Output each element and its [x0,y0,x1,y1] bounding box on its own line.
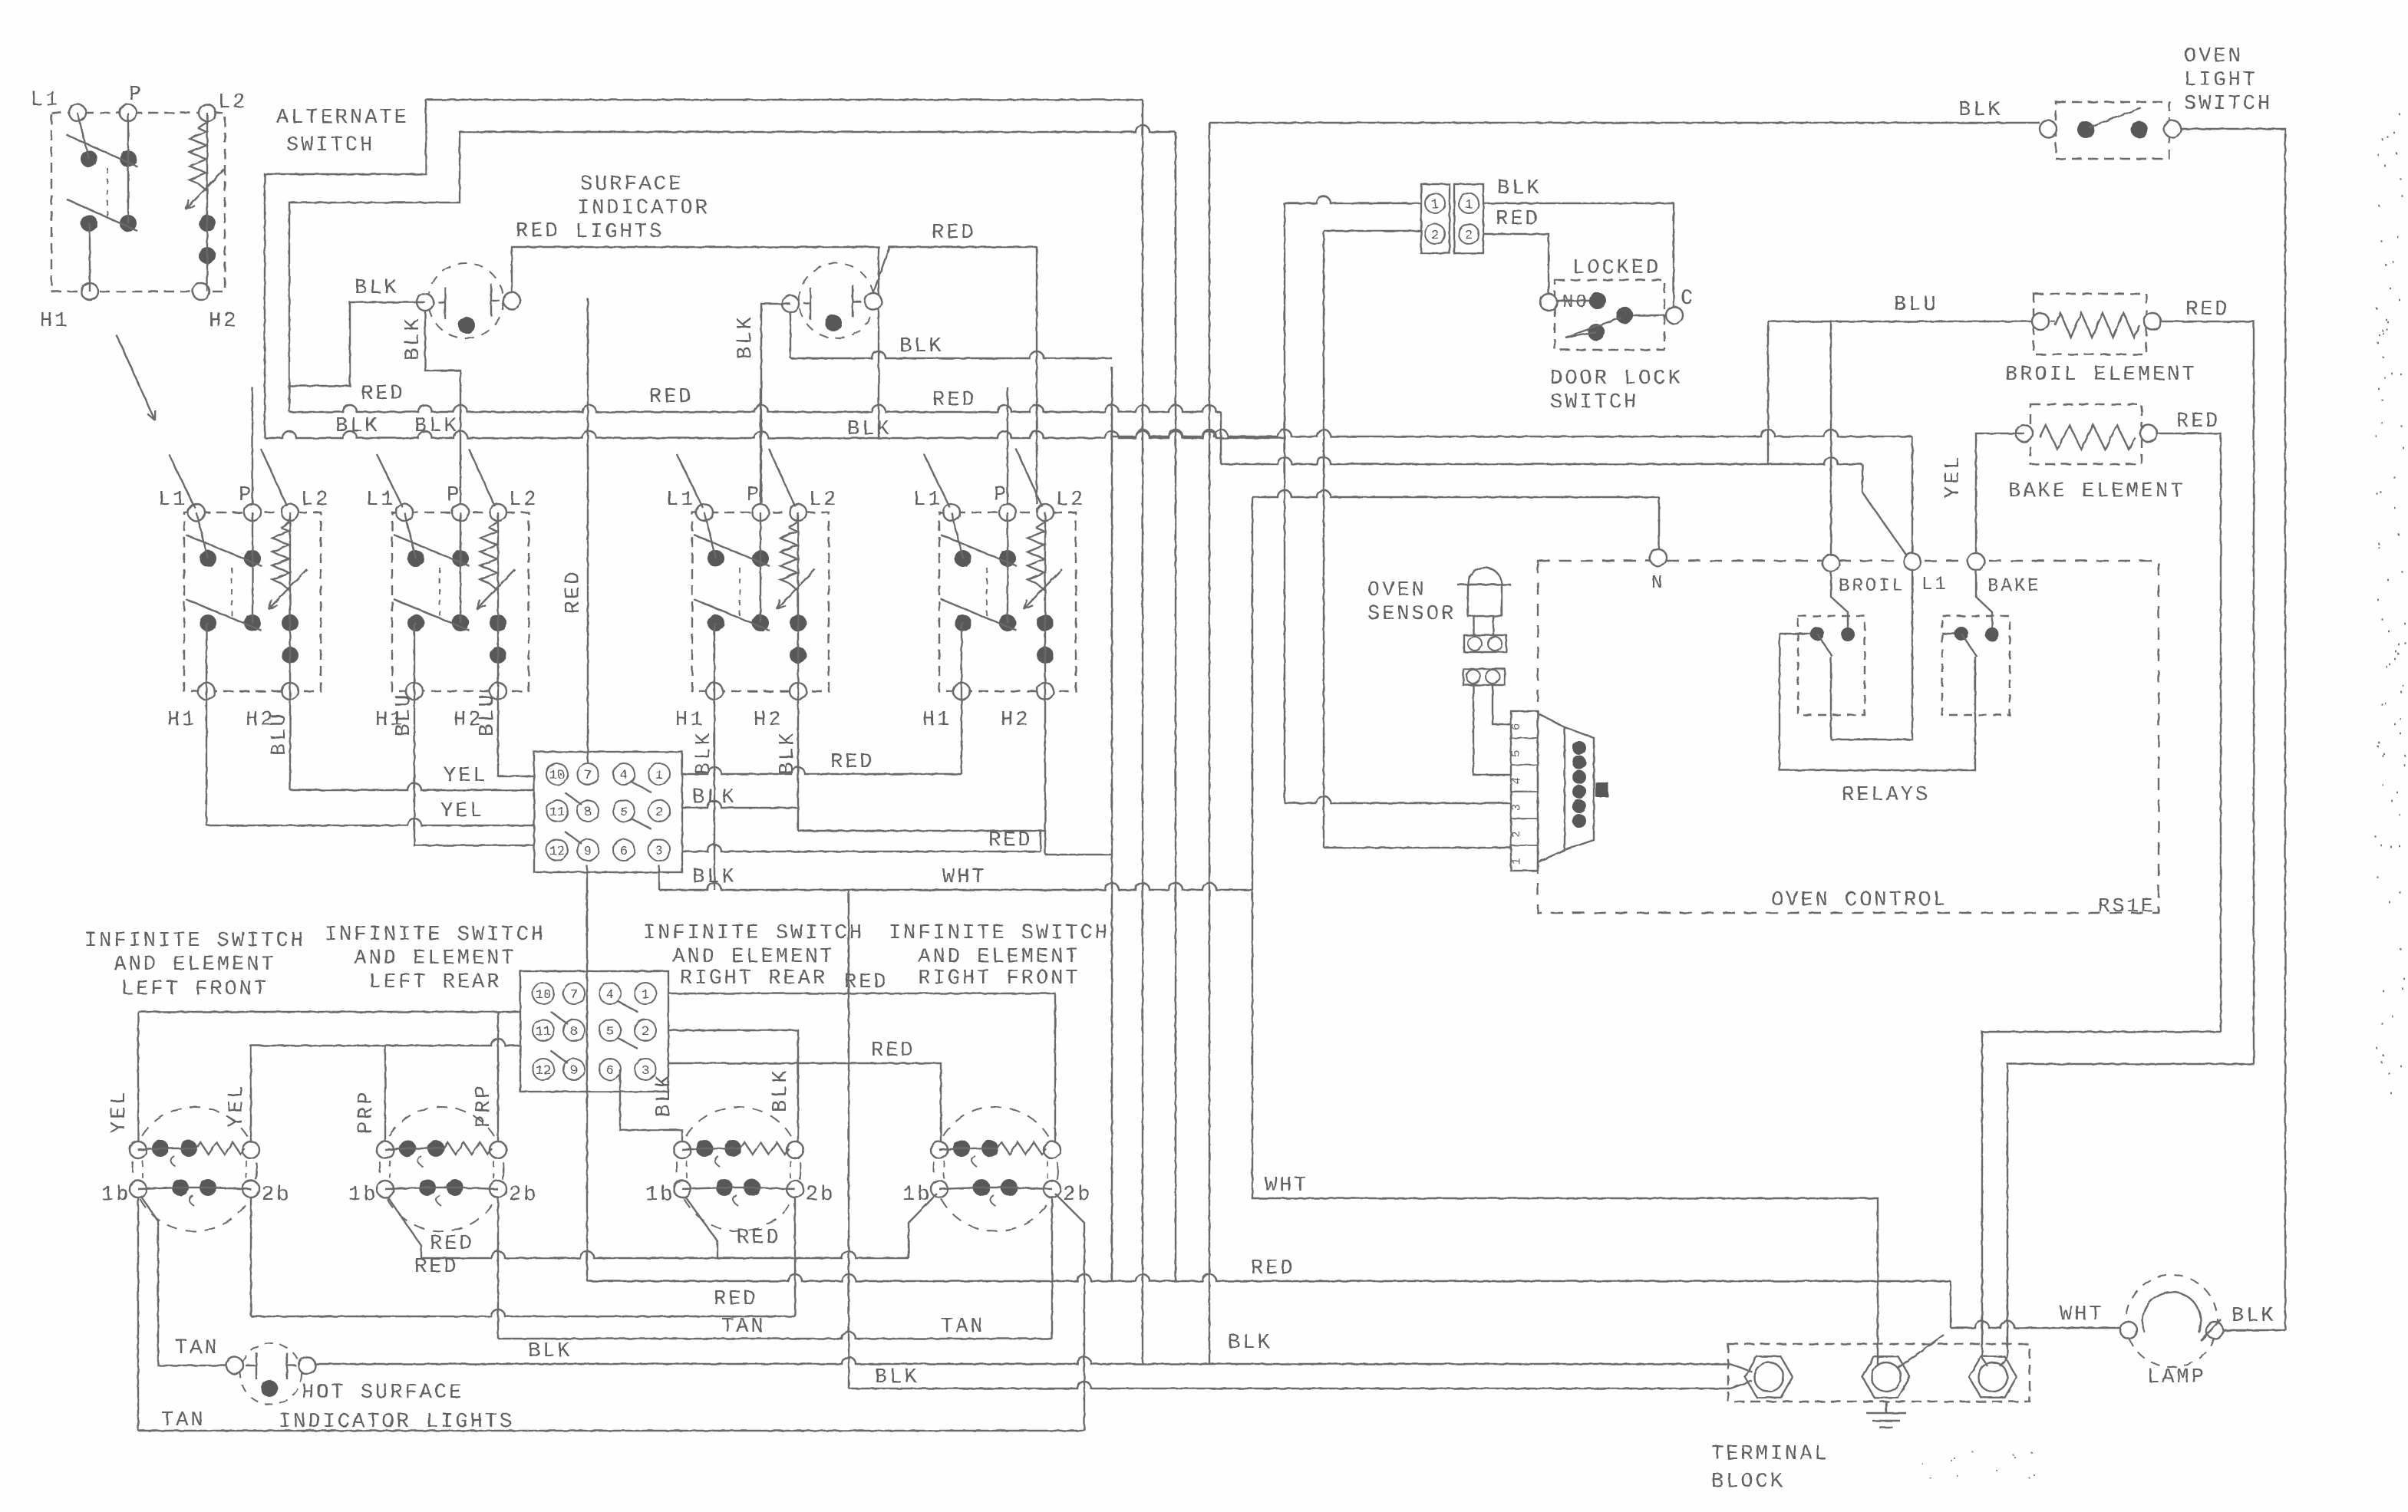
svg-text:3: 3 [642,1064,649,1079]
connector CB2 pin 3 [635,1059,656,1080]
svg-text:RIGHT FRONT: RIGHT FRONT [918,967,1080,990]
svg-text:BLU: BLU [1894,294,1938,317]
wire RED bus elements 1b [388,1197,421,1258]
svg-text:BLK: BLK [899,335,944,358]
wire S2 H2 down BLU [498,691,534,776]
door lock switch terminal NO [1540,294,1557,311]
svg-text:12: 12 [536,1064,551,1079]
svg-text:2: 2 [1431,229,1439,243]
svg-text:H1: H1 [675,709,704,732]
switch S4 contacts [955,550,971,567]
svg-text:P: P [447,484,461,507]
switch S3 terminal H2 [790,683,807,700]
oven light switch contacts [2077,121,2094,138]
wire cascade S3H2 to S4H2 [798,830,1045,832]
svg-text:3: 3 [1510,804,1523,811]
svg-text:BLOCK: BLOCK [1711,1471,1785,1494]
svg-text:BLK: BLK [528,1340,572,1363]
switch S2 contacts [407,550,424,567]
svg-text:RED: RED [830,751,875,774]
svg-text:5: 5 [1510,750,1523,757]
svg-text:BLU: BLU [269,711,292,756]
wire element2 right riser PRP [497,1012,499,1141]
svg-text:11: 11 [549,805,565,820]
wire riser x1489 BLK [1142,100,1143,1364]
bake element resistor [2040,425,2135,450]
svg-text:RED: RED [871,1039,915,1062]
svg-text:L1: L1 [666,489,695,512]
lamp terminals [2120,1322,2137,1339]
wire TAN bottom bus [138,1430,1084,1431]
infinite switch LEFT FRONT link dashes [143,1161,246,1178]
wire S4 H1 down [961,691,962,774]
switch S2 terminal P [452,504,469,521]
infinite switch RIGHT REAR element resistor [696,1140,713,1157]
wire S4 H2 down [1044,691,1046,855]
svg-text:AND ELEMENT: AND ELEMENT [672,946,834,969]
wire bake RED to riser [2157,433,2221,1032]
svg-text:6: 6 [620,845,628,859]
relay K1 feed jog [1831,572,1848,629]
relay K2 right contact [1985,628,1999,641]
switch S2 contact arm upper [394,535,470,566]
relay K2 feed jog [1976,570,1992,629]
oven control board connector [1565,727,1594,850]
connector CB1 pin 10 [546,763,568,785]
switch S3 terminal L1 [696,504,713,521]
bake element terminals [2016,425,2033,442]
oven light switch dashed box [2056,102,2169,159]
svg-text:TAN: TAN [175,1337,219,1360]
svg-text:2b: 2b [806,1184,835,1207]
hot surface light bulb dot [261,1380,278,1397]
svg-text:BLK: BLK [355,277,399,300]
svg-text:LOCKED: LOCKED [1572,257,1661,280]
svg-text:BLK: BLK [875,1366,919,1389]
wire bus into CB2 upper [138,1011,520,1013]
svg-text:8: 8 [584,805,592,820]
svg-text:P: P [129,84,143,107]
svg-text:YEL: YEL [440,800,485,823]
connector CB2 pin 12 [533,1059,554,1080]
svg-text:L2: L2 [509,489,538,512]
svg-text:ALTERNATE: ALTERNATE [276,107,409,130]
scan noise right margin [2375,114,2406,1093]
oven control terminal BROIL [1822,555,1839,572]
svg-text:BLK: BLK [692,866,737,889]
strip to connector perspective lines [1538,713,1565,727]
svg-text:RS1E: RS1E [2098,894,2155,917]
switch S1 terminal H2 [282,683,299,700]
svg-text:L2: L2 [301,489,330,512]
switch S2 wiper arrow [477,569,515,609]
svg-text:INFINITE SWITCH: INFINITE SWITCH [325,924,546,947]
connector CB2 pin 4 [599,983,621,1004]
infinite switch RIGHT FRONT element resistor [953,1140,970,1157]
wire connector pin1 BLK to door lock C [1483,203,1674,307]
svg-text:PRP: PRP [473,1083,496,1128]
switch S4 contact arm upper [941,535,1017,566]
infinite switch RIGHT FRONT dashed circle [934,1107,1058,1231]
svg-text:INFINITE SWITCH: INFINITE SWITCH [889,922,1110,945]
switch S1 terminal L2 [282,504,299,521]
terminal block hex lug 1 [1745,1356,1793,1398]
svg-text:10: 10 [536,988,551,1003]
wire CB1 pin6 down [658,865,660,890]
svg-text:YEL: YEL [444,765,488,788]
svg-text:L2: L2 [1056,489,1085,512]
svg-text:RED: RED [1251,1257,1295,1280]
infinite switch RIGHT FRONT upper terminals [931,1141,948,1158]
svg-text:BROIL: BROIL [1839,576,1905,597]
svg-text:BLU: BLU [393,692,416,736]
switch S1 resistor [281,522,290,528]
relay K1 left contact [1810,627,1824,641]
oven sensor connector 1 [1464,635,1506,652]
wire P feed S4 [1007,387,1008,504]
svg-text:BLK: BLK [734,315,757,359]
svg-text:TERMINAL: TERMINAL [1711,1443,1829,1466]
infinite switch LEFT REAR lower switch [377,1181,394,1197]
svg-text:BLK: BLK [1958,99,2003,122]
switch S1 dashed outline [184,512,321,691]
oven sensor bulb [1468,568,1502,585]
connector CB1 pin 7 [577,763,599,785]
wire broil RED horizontal to hex3 [2007,1064,2254,1358]
wire bus y265 to connector [1285,196,1421,203]
switch S2 terminal L1 [396,504,413,521]
svg-text:BLK: BLK [847,418,892,441]
switch S1 contacts [200,550,216,567]
wire CB1 pin3 RED out [682,845,1041,852]
infinite switch LEFT FRONT upper terminals [130,1141,147,1158]
wire TAN bus y1745 [497,1197,499,1339]
svg-text:5: 5 [606,1025,614,1039]
hot surface indicator light dashed circle [240,1343,302,1405]
hot surface light terminals [226,1357,243,1374]
svg-text:4: 4 [620,769,628,783]
wire N riser [1658,497,1660,549]
svg-text:P: P [747,484,761,507]
connector CB2 pin 1 [635,983,656,1004]
wire element2 left riser PRP [384,1046,386,1141]
lamp dashed circle [2126,1275,2218,1367]
connector P1-A pin 1 [1425,193,1445,213]
svg-text:H1: H1 [167,709,196,732]
svg-text:LIGHTS: LIGHTS [576,221,664,244]
wire element1 1b to TAN hot-surface [141,1197,226,1365]
wire bus lineC y648 to N [1252,490,1659,497]
switch S3 terminal H1 [706,683,723,700]
oven sensor connector 2 [1463,669,1505,685]
connector CB1 pin 9 [577,839,599,861]
switch S0-ALTERNATE contacts [81,150,97,167]
scan noise bottom right [1921,1451,2035,1478]
wire L2 feed S4 [1016,449,1042,506]
wire relay bottom loop [1780,634,1975,770]
svg-text:2: 2 [655,805,663,820]
door lock switch terminal C [1666,307,1683,324]
svg-text:RED: RED [714,1288,758,1311]
svg-text:SWITCH: SWITCH [1550,391,1638,414]
oven sensor stems [1473,616,1475,635]
lamp envelope [2142,1292,2201,1332]
wire element4 2b taper down [1055,1194,1084,1431]
wire L1 feed S2 [377,454,403,508]
svg-text:6: 6 [606,1064,614,1079]
wire S2 H1 down BLU [414,691,534,845]
svg-text:3: 3 [655,845,663,859]
wire lamp BLK right [2223,1329,2285,1331]
relay K2 (bake) dashed box [1942,616,2010,715]
svg-text:BAKE ELEMENT: BAKE ELEMENT [2008,480,2185,503]
switch S0-ALTERNATE terminal L2 [199,104,216,121]
connector CB1 pin 1 [648,763,670,785]
svg-text:L1: L1 [913,489,942,512]
svg-text:1: 1 [1431,198,1439,212]
svg-text:WHT: WHT [942,866,987,889]
switch S4 dashed outline [939,512,1076,691]
switch S4 internal wiring [952,512,963,558]
switch S0-ALTERNATE terminal L1 [69,104,86,121]
svg-text:H1: H1 [40,310,69,333]
switch S1 contact arm upper [186,535,262,566]
wire BLU to broil element [1768,321,2032,322]
switch S3 contact arm lower [694,599,770,631]
svg-text:RED: RED [932,222,976,245]
relay K1 left stub [1780,633,1811,634]
wire RED bus y537 [289,405,1221,412]
wire element1 left riser YEL [137,1012,139,1141]
svg-text:BLK: BLK [692,786,737,809]
switch S4 terminal H1 [953,683,970,700]
svg-text:L2: L2 [218,91,247,114]
svg-text:10: 10 [549,769,565,783]
broil element dashed box [2034,294,2146,354]
svg-text:YEL: YEL [108,1089,131,1134]
svg-text:RED: RED [430,1233,474,1256]
wire S1 H2 down YEL [289,691,291,790]
svg-text:LIGHT: LIGHT [2184,69,2258,92]
svg-text:BLK: BLK [2232,1305,2276,1328]
wire P feed S1 [252,387,253,504]
relay K1 arm [1817,634,1832,657]
switch S3 wiper arrow [777,569,815,609]
connector P1-B pin 1 [1459,193,1479,213]
connector CB2 pin 2 [635,1020,656,1041]
relay K2 arm [1961,634,1977,657]
svg-text:INFINITE SWITCH: INFINITE SWITCH [643,922,864,945]
svg-text:H1: H1 [922,709,952,732]
svg-text:INDICATOR: INDICATOR [577,197,710,220]
wire riser x1449 [1111,367,1113,1281]
wire RED bus y1716 [251,1309,795,1316]
wire riser x1576 [1209,123,1210,1364]
switch S0-ALTERNATE resistor [198,122,207,128]
terminal block hex lug 3 [1969,1356,2017,1398]
wire bus into strip pin3 [1285,802,1317,804]
broil element resistor [2050,321,2055,322]
switch S2 resistor [489,522,498,528]
switch S3 internal wiring [704,512,716,558]
svg-text:RED: RED [649,386,694,409]
wire CB2 pin2 to element3 [668,1030,798,1151]
switch S1 terminal L1 [188,504,205,521]
switch S0-ALTERNATE contact arm upper [67,135,137,166]
svg-text:BLK: BLK [1497,177,1542,200]
switch S3 terminal L2 [790,504,807,521]
switch S4 terminal P [999,504,1016,521]
connector CB2 pin 7 [563,983,585,1004]
svg-text:INDICATOR LIGHTS: INDICATOR LIGHTS [279,1411,514,1434]
svg-text:AND ELEMENT: AND ELEMENT [114,954,275,977]
svg-text:7: 7 [570,988,578,1003]
wire BLK under DS2 [790,312,791,358]
svg-text:YEL: YEL [1942,454,1965,499]
svg-text:2b: 2b [509,1184,538,1207]
svg-text:12: 12 [549,845,565,859]
svg-text:1: 1 [1510,858,1523,865]
infinite switch RIGHT REAR upper terminals [674,1141,691,1158]
svg-text:2b: 2b [262,1184,291,1207]
svg-text:RED: RED [2176,410,2221,433]
svg-text:INFINITE SWITCH: INFINITE SWITCH [84,930,305,953]
switch S4 terminal H2 [1037,683,1054,700]
svg-text:H2: H2 [1001,709,1030,732]
svg-text:RED: RED [988,829,1033,852]
connector P1-A pin 2 [1425,224,1445,244]
wire sensor to strip B [1493,685,1511,724]
switch S2 dashed outline [392,512,529,691]
svg-text:SWITCH: SWITCH [286,134,374,157]
svg-text:1b: 1b [101,1184,130,1207]
connector CB2 pin 11 [533,1020,554,1041]
wire top bus BLK upper [265,100,1143,438]
pointer arrow below alternate switch [117,335,155,420]
svg-text:PRP: PRP [355,1089,378,1134]
wire BLK bus y1160 becomes WHT [659,883,1252,890]
svg-text:L1: L1 [1921,575,1948,595]
svg-text:WHT: WHT [2060,1303,2104,1326]
oven control terminal N [1650,549,1667,566]
svg-text:7: 7 [584,769,592,783]
wire BLK bus from hot surface light [315,1357,1730,1364]
infinite switch RIGHT REAR link dashes [687,1161,790,1178]
svg-text:SWITCH: SWITCH [2184,93,2272,116]
infinite switch LEFT FRONT element resistor [152,1140,169,1157]
svg-text:4: 4 [606,988,614,1003]
terminal block dashed box [1728,1344,2030,1402]
infinite switch RIGHT FRONT link dashes [944,1161,1047,1178]
svg-text:RIGHT REAR: RIGHT REAR [680,967,827,990]
svg-text:BROIL ELEMENT: BROIL ELEMENT [2005,364,2197,387]
svg-text:RED: RED [844,971,889,994]
wire riser x1725 [1323,231,1324,848]
wire RED long bus y1670 [587,1274,1951,1281]
svg-text:BLK: BLK [335,415,380,438]
relay K2 left contact [1954,627,1968,641]
relay K2 left stub [1942,633,1955,634]
svg-text:OVEN CONTROL: OVEN CONTROL [1771,889,1948,912]
broil element terminals [2032,313,2049,330]
switch S4 contact arm lower [941,599,1017,631]
connector CB1 pin 6 [613,839,635,861]
switch S3 contact arm upper [694,535,770,566]
connector block CB1 outline [534,752,682,872]
wire CB2 pin3 to element4 left [668,1063,941,1151]
svg-text:L1: L1 [31,89,60,112]
svg-text:1b: 1b [645,1184,675,1207]
infinite switch RIGHT REAR dashed circle [677,1107,801,1231]
switch S4 resistor [1036,522,1045,528]
switch S3 terminal P [752,504,769,521]
svg-text:RED: RED [737,1227,781,1250]
infinite switch RIGHT REAR lower switch [674,1181,691,1197]
surface indicator light DS2 contacts [782,295,799,312]
svg-text:9: 9 [584,845,592,859]
infinite switch LEFT REAR link dashes [390,1161,493,1178]
svg-text:9: 9 [570,1064,578,1079]
svg-text:1: 1 [642,988,649,1003]
svg-text:LEFT REAR: LEFT REAR [369,971,502,994]
wire bus into strip pin2 [1324,847,1511,848]
wire riser x1106 to terminal block BLK [848,890,849,1388]
switch S0-ALTERNATE terminal P [120,104,137,121]
wire element1 right riser YEL [250,1046,252,1141]
switch S1 internal wiring [196,512,208,558]
switch S1 wiper arrow [269,569,307,609]
svg-text:2: 2 [1465,229,1473,243]
surface indicator light DS1 dashed circle [428,263,503,338]
switch S0-ALTERNATE wiper arrow [186,170,224,209]
svg-text:4: 4 [1510,777,1523,784]
svg-text:BLU: BLU [477,692,500,736]
switch S2 terminal H1 [406,683,423,700]
svg-text:WHT: WHT [1265,1174,1309,1197]
switch S0-ALTERNATE terminal H2 [193,283,209,300]
wire bus y301 to connector [1324,230,1421,232]
svg-text:P: P [239,484,253,507]
svg-text:NO: NO [1562,292,1589,313]
connector CB2 pin 5 [599,1020,621,1041]
wire bus lineB y605 to L1 arm [1220,412,1222,464]
connector CB2 internal links [618,1001,638,1012]
switch S1 terminal H1 [198,683,215,700]
door lock contacts [1589,292,1606,309]
svg-text:RED: RED [414,1256,459,1279]
svg-text:HOT SURFACE: HOT SURFACE [302,1382,463,1405]
svg-text:DOOR LOCK: DOOR LOCK [1550,367,1683,390]
infinite switch RIGHT FRONT lower switch [931,1181,948,1197]
switch S0-ALTERNATE terminal H1 [81,283,98,300]
wire DS1 left down to P2 [425,311,460,391]
wire DS2 right RED [873,247,1037,504]
svg-text:BLK: BLK [653,1072,676,1117]
wire bake RED horizontal to hex3 [1982,1032,2221,1358]
wire DS1 right RED [512,247,879,438]
wire element1 1b down [137,1197,139,1431]
wire S3 H2 down BLK [797,691,799,831]
wire BLU riser to BROIL [1830,321,1832,555]
svg-text:P: P [994,484,1008,507]
wire S1 H1 down YEL [206,691,207,825]
wire element1 2b down [250,1197,252,1316]
relay K1 arm drop [1830,657,1832,740]
connector CB2 pin 9 [563,1059,585,1080]
oven control terminal BAKE [1968,553,1984,570]
svg-text:N: N [1651,573,1664,594]
svg-text:AND ELEMENT: AND ELEMENT [354,947,516,970]
